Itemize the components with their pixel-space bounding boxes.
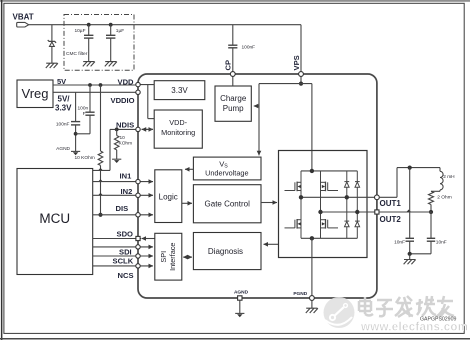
transistor Q2 (top-right) bbox=[321, 171, 339, 212]
resistor 2 Ohm bbox=[429, 191, 434, 204]
diode D4 (bottom col A) bbox=[344, 197, 349, 238]
node junction bbox=[87, 23, 91, 27]
Logic box bbox=[155, 170, 182, 223]
svg-text:SPI: SPI bbox=[159, 251, 168, 263]
svg-text:CP: CP bbox=[224, 60, 233, 71]
capacitor 100nF (left) bbox=[75, 92, 77, 121]
ground caps bbox=[404, 260, 416, 265]
capacitor 10nF left bbox=[409, 168, 411, 238]
wire VBAT rail bbox=[29, 24, 301, 26]
wire IN1 bbox=[93, 181, 153, 183]
wire 5V bbox=[53, 84, 138, 86]
wire Logic to Gate Control bbox=[182, 202, 192, 204]
svg-text:100nF: 100nF bbox=[242, 44, 256, 50]
svg-text:2 Ohm: 2 Ohm bbox=[437, 194, 451, 200]
svg-text:OUT1: OUT1 bbox=[380, 199, 402, 208]
pin AGND bbox=[238, 296, 242, 300]
svg-text:Undervoltage: Undervoltage bbox=[205, 169, 248, 178]
svg-text:Diagnosis: Diagnosis bbox=[208, 247, 243, 256]
H-bridge box bbox=[279, 151, 368, 258]
capacitor 10nF right bbox=[430, 212, 432, 238]
Vs Undervoltage box bbox=[193, 157, 261, 180]
wire bridge bottom rail bbox=[301, 237, 357, 239]
svg-text:AGND: AGND bbox=[56, 146, 70, 152]
wire NDIS internal double arrow bbox=[142, 128, 154, 130]
watermark chinese characters bbox=[359, 296, 454, 317]
svg-text:VBAT: VBAT bbox=[13, 13, 34, 22]
ground AGND (signal) bbox=[71, 151, 80, 155]
transistor Q3 (bottom-left) bbox=[285, 197, 302, 238]
svg-text:AGND: AGND bbox=[234, 290, 249, 296]
pin labels left bbox=[111, 77, 135, 279]
svg-text:VDD: VDD bbox=[118, 77, 135, 86]
svg-text:3.3V: 3.3V bbox=[171, 86, 188, 95]
pin OUT1 bbox=[375, 195, 380, 200]
Charge Pump box bbox=[215, 86, 251, 121]
wire SCLK bbox=[93, 255, 153, 257]
svg-text:10nF: 10nF bbox=[394, 239, 405, 245]
wire zener branch bbox=[51, 25, 53, 42]
pin OUT2 bbox=[375, 210, 379, 214]
wire VsUV to Logic bbox=[185, 168, 193, 170]
svg-text:SDI: SDI bbox=[119, 248, 132, 257]
wire bridge top rail bbox=[301, 170, 357, 172]
svg-text:www.elecfans.com: www.elecfans.com bbox=[360, 322, 468, 334]
pin PGND bbox=[310, 296, 315, 301]
diode D3 (top col B) bbox=[355, 171, 360, 212]
ground AGND pin bbox=[235, 313, 244, 317]
wire OUT2 rail bbox=[321, 211, 377, 213]
Gate Control box bbox=[193, 185, 261, 223]
wire SDI bbox=[93, 246, 153, 248]
document frame bbox=[0, 0, 470, 2]
svg-text:SDO: SDO bbox=[117, 229, 134, 238]
svg-text:10: 10 bbox=[120, 135, 126, 141]
svg-text:IN1: IN1 bbox=[120, 171, 133, 180]
ground under 1uF bbox=[105, 62, 117, 67]
3.3V box bbox=[154, 81, 205, 100]
capacitor 1uF bbox=[110, 25, 112, 35]
node junction bbox=[109, 23, 113, 27]
wire bridge to Diagnosis bbox=[264, 243, 279, 245]
node junctions on 5V bbox=[88, 83, 92, 87]
svg-text:Charge: Charge bbox=[220, 94, 247, 103]
resistor 10 KOhm pull-up bbox=[100, 85, 102, 151]
svg-text:10µF: 10µF bbox=[74, 28, 85, 34]
wire OUT1 rail bbox=[301, 196, 377, 198]
svg-text:VDDIO: VDDIO bbox=[111, 96, 135, 105]
wire VPS drop bbox=[300, 25, 302, 72]
svg-text:5V/: 5V/ bbox=[58, 95, 71, 104]
ground under 10uF bbox=[83, 62, 95, 67]
wire 5V/3.3V to VDDIO bbox=[53, 91, 138, 93]
svg-text:NCS: NCS bbox=[118, 271, 134, 280]
svg-text:SCLK: SCLK bbox=[113, 257, 134, 266]
svg-text:VDD-: VDD- bbox=[169, 118, 187, 127]
inductor 2 mH bbox=[439, 168, 441, 172]
wire DIS bbox=[93, 214, 153, 216]
wire NCS bbox=[93, 265, 153, 267]
diode D5 (bottom col B) bbox=[355, 212, 360, 238]
svg-text:Vreg: Vreg bbox=[22, 86, 49, 101]
svg-text:10 KOhm: 10 KOhm bbox=[75, 155, 95, 161]
node junction caps bbox=[74, 132, 78, 136]
wire VPS rail bbox=[300, 74, 302, 84]
wire PGND drop bbox=[311, 238, 313, 298]
wire SPI to Diagnosis double arrow bbox=[184, 256, 192, 258]
capacitor 100nF (right small) bbox=[89, 85, 91, 112]
transistor Q4 (bottom-right) bbox=[321, 212, 339, 238]
svg-text:Monitoring: Monitoring bbox=[161, 128, 195, 137]
svg-text:2 mH: 2 mH bbox=[443, 174, 455, 180]
wire Gate Control to bridge bbox=[261, 202, 277, 204]
capacitor 10uF bbox=[88, 25, 90, 35]
Vreg box bbox=[17, 80, 53, 108]
svg-text:MCU: MCU bbox=[39, 211, 70, 226]
svg-text:PGND: PGND bbox=[293, 291, 307, 297]
CMC filter dash-dot box bbox=[64, 15, 134, 71]
svg-text:1µF: 1µF bbox=[116, 28, 124, 34]
VBAT connector bbox=[17, 22, 29, 27]
transistor Q1 (top-left) bbox=[285, 171, 302, 197]
svg-text:10nF: 10nF bbox=[436, 239, 447, 245]
ground (chassis) under zener bbox=[46, 63, 58, 68]
svg-text:Interface: Interface bbox=[168, 242, 177, 270]
svg-text:3.3V: 3.3V bbox=[55, 104, 72, 113]
svg-text:VPS: VPS bbox=[292, 55, 301, 70]
svg-text:F: F bbox=[83, 111, 86, 117]
MCU box bbox=[17, 169, 93, 275]
main IC box bbox=[138, 74, 377, 298]
wire CP to Charge Pump bbox=[232, 74, 234, 86]
svg-text:Pump: Pump bbox=[223, 104, 244, 113]
svg-text:5V: 5V bbox=[57, 77, 66, 86]
svg-text:100nF: 100nF bbox=[56, 121, 70, 127]
VDD-Monitoring box bbox=[154, 110, 202, 148]
Diagnosis box bbox=[193, 233, 261, 270]
svg-text:DIS: DIS bbox=[116, 204, 129, 213]
wire NDIS bbox=[110, 128, 138, 130]
node join caps bbox=[410, 253, 431, 255]
wire IN2 bbox=[93, 194, 153, 196]
svg-text:Gate Control: Gate Control bbox=[205, 200, 251, 209]
svg-text:Logic: Logic bbox=[159, 193, 178, 202]
diode D2 (top col A) bbox=[344, 171, 349, 197]
svg-text:OUT2: OUT2 bbox=[380, 215, 402, 224]
pin CP bbox=[230, 72, 235, 77]
wire hop marks bbox=[98, 168, 103, 171]
svg-text:100n: 100n bbox=[78, 105, 89, 111]
resistor 10 KOhm on NDIS bbox=[116, 129, 118, 135]
ground PGND bbox=[306, 308, 318, 313]
pins left column bbox=[136, 82, 140, 86]
svg-text:IN2: IN2 bbox=[121, 187, 133, 196]
zener diode D1 bbox=[48, 40, 56, 43]
wire SDO bbox=[142, 238, 155, 240]
pin VPS bbox=[299, 72, 304, 77]
SPI Interface box bbox=[155, 233, 182, 280]
svg-text:NDIS: NDIS bbox=[116, 120, 134, 129]
svg-text:CMC filter: CMC filter bbox=[66, 51, 88, 57]
wire OUT2 external bbox=[379, 211, 431, 213]
wire OUT1 external bbox=[379, 196, 397, 198]
capacitor 100nF on CP bbox=[232, 25, 234, 45]
ground under NDIS resistor bbox=[112, 159, 121, 163]
watermark logo bbox=[324, 297, 355, 328]
svg-text:KOhm: KOhm bbox=[119, 140, 133, 146]
wire VDD internal bbox=[138, 84, 154, 86]
